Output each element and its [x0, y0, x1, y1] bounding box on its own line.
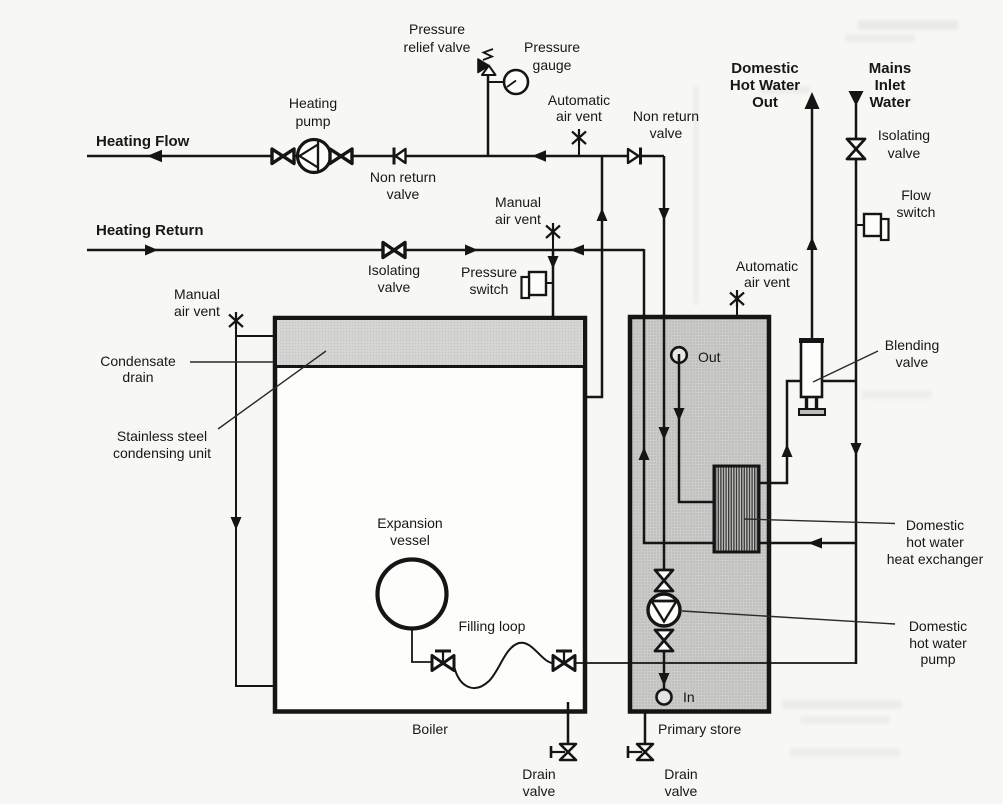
pointer line to DHW pump	[682, 611, 895, 624]
svg-text:Heating: Heating	[289, 95, 337, 111]
isolating valve on heating return	[383, 243, 405, 258]
svg-text:In: In	[683, 689, 695, 705]
svg-text:valve: valve	[523, 783, 556, 799]
boiler drain valve	[551, 744, 576, 760]
svg-text:relief valve: relief valve	[404, 39, 471, 55]
automatic air vent symbol on flow line	[572, 129, 586, 146]
arrow: down into boiler inlet	[548, 256, 559, 269]
wire: filling loop flexible hose	[454, 643, 552, 688]
boiler body	[275, 318, 585, 712]
wire: store return riser (return line down into store to heat exchanger)	[643, 249, 646, 544]
svg-text:Inlet: Inlet	[875, 77, 906, 94]
isolating valve right of pump	[330, 149, 352, 164]
svg-text:Non return: Non return	[633, 108, 699, 124]
manual air vent symbol above return	[546, 223, 560, 240]
svg-text:hot water: hot water	[909, 635, 967, 651]
svg-text:valve: valve	[896, 354, 929, 370]
svg-text:valve: valve	[387, 186, 420, 202]
pointer line to condensing unit	[218, 351, 326, 429]
svg-text:Condensate: Condensate	[100, 353, 176, 369]
wire: boiler return inlet drop	[552, 250, 555, 317]
svg-text:Drain: Drain	[522, 766, 555, 782]
svg-text:Domestic: Domestic	[909, 618, 967, 634]
pointer line to heat exchanger	[744, 519, 895, 524]
svg-text:Domestic: Domestic	[906, 517, 964, 533]
wire: condensate drain pointer line	[190, 361, 274, 363]
svg-text:air vent: air vent	[495, 211, 541, 227]
pointer line to blending valve	[813, 351, 878, 382]
filling loop valve left	[432, 651, 454, 671]
wire: manual air vent left drop pipe	[236, 326, 273, 686]
wire: pressure gauge link	[488, 81, 504, 83]
arrow: up to blending valve	[782, 444, 793, 457]
automatic air vent symbol on store	[730, 290, 744, 307]
domestic hot water pump body	[648, 594, 680, 626]
svg-text:Out: Out	[698, 349, 721, 365]
arrow: right on heating return mid	[465, 245, 478, 256]
blending valve body	[799, 340, 825, 415]
pressure gauge	[504, 70, 528, 94]
wire: domestic hot water out line	[811, 106, 814, 341]
filling loop valve right	[553, 651, 575, 671]
wire: pressure switch link	[546, 282, 554, 284]
wire: flow switch link	[856, 224, 864, 226]
svg-text:gauge: gauge	[533, 57, 572, 73]
svg-text:Isolating: Isolating	[368, 262, 420, 278]
wire: heat exchanger top outlet to blending valve	[759, 381, 801, 483]
svg-text:Manual: Manual	[174, 286, 220, 302]
svg-text:Filling loop: Filling loop	[459, 618, 526, 634]
manual air vent symbol left	[229, 312, 243, 329]
wire: automatic air vent stem	[578, 143, 580, 156]
wire: mains inlet water line	[855, 104, 858, 664]
wire: expansion vessel drop	[412, 628, 433, 662]
svg-text:air vent: air vent	[744, 274, 790, 290]
faint scan ghosts (background bleed-through)	[395, 20, 958, 757]
primary store tank body	[630, 317, 769, 712]
wire: heating return main pipe	[87, 249, 644, 252]
arrow: small up on DHW out line	[807, 237, 818, 250]
svg-text:Mains: Mains	[869, 60, 912, 77]
svg-text:air vent: air vent	[174, 303, 220, 319]
arrow: mains inlet big down	[849, 91, 864, 106]
arrow: left on return extension	[570, 245, 584, 256]
wire: heat exchanger bottom connection	[643, 542, 856, 545]
svg-text:Hot Water: Hot Water	[730, 77, 800, 94]
non return valve top right	[628, 148, 641, 165]
svg-text:air vent: air vent	[556, 108, 602, 124]
arrow: right on heating return left	[145, 245, 158, 256]
pressure relief valve	[478, 49, 496, 75]
svg-text:Manual: Manual	[495, 194, 541, 210]
svg-text:Water: Water	[869, 94, 910, 111]
wire: filling loop line to mains	[574, 662, 856, 664]
wire: store Out port drop to heat exchanger	[679, 354, 714, 502]
arrow: up on store return riser	[639, 447, 650, 460]
isolating valve left of pump	[272, 149, 294, 164]
svg-text:Drain: Drain	[664, 766, 697, 782]
svg-text:Automatic: Automatic	[548, 92, 610, 108]
svg-text:valve: valve	[378, 279, 411, 295]
arrow: down on mains line	[851, 443, 862, 456]
arrow: heating flow left end	[147, 150, 162, 162]
arrow: up on boiler flow riser	[597, 208, 608, 221]
svg-text:Non return: Non return	[370, 169, 436, 185]
svg-text:Domestic: Domestic	[731, 60, 799, 77]
wire: manual air vent stem above return	[552, 224, 554, 250]
non return valve on heating flow	[394, 148, 406, 165]
svg-text:valve: valve	[888, 145, 921, 161]
wire: flow line corner down to store pump	[663, 156, 666, 572]
svg-text:Heating Flow: Heating Flow	[96, 133, 190, 150]
svg-text:pump: pump	[920, 651, 955, 667]
arrow: down on left vent pipe	[231, 517, 242, 530]
svg-text:hot water: hot water	[906, 534, 964, 550]
svg-text:Blending: Blending	[885, 337, 940, 353]
svg-text:Flow: Flow	[901, 187, 931, 203]
svg-text:heat exchanger: heat exchanger	[887, 551, 984, 567]
svg-text:Pressure: Pressure	[409, 21, 465, 37]
svg-text:Pressure: Pressure	[461, 264, 517, 280]
arrow: heating flow mid pointing left	[532, 150, 546, 162]
arrow: down on store feed inside store	[659, 427, 670, 440]
svg-text:Automatic: Automatic	[736, 258, 798, 274]
wire: boiler drain stub	[567, 702, 570, 744]
store drain valve	[628, 744, 653, 760]
svg-text:switch: switch	[470, 281, 509, 297]
svg-text:Isolating: Isolating	[878, 127, 930, 143]
svg-text:Primary store: Primary store	[658, 721, 741, 737]
arrow: left on heat exchanger bottom connection	[808, 538, 822, 549]
wire: manual air vent link to boiler	[236, 335, 274, 337]
heat exchanger (domestic hot water heat exchanger)	[714, 466, 759, 552]
store pump isolating valve lower	[655, 630, 673, 651]
condensing unit band bottom edge	[275, 365, 585, 368]
svg-text:Pressure: Pressure	[524, 39, 580, 55]
svg-text:Boiler: Boiler	[412, 721, 448, 737]
svg-text:Expansion: Expansion	[377, 515, 442, 531]
svg-text:switch: switch	[897, 204, 936, 220]
store Out port circle	[671, 347, 687, 363]
heating pump body	[298, 140, 331, 173]
arrow: down on store feed pipe	[659, 208, 670, 221]
svg-text:condensing unit: condensing unit	[113, 445, 211, 461]
wire: store pump lower pipe to In port	[663, 650, 666, 689]
store In port circle	[657, 690, 672, 705]
svg-text:vessel: vessel	[390, 532, 430, 548]
flow switch	[864, 214, 889, 240]
arrow: down to In port	[659, 673, 670, 686]
mains isolating valve	[847, 139, 865, 159]
pressure switch	[522, 272, 547, 298]
wire: pressure relief valve drop pipe	[487, 74, 490, 156]
wire: boiler flow riser (boiler to heating flow line)	[584, 156, 602, 397]
svg-text:Out: Out	[752, 94, 778, 111]
svg-text:valve: valve	[650, 125, 683, 141]
arrow: domestic hot water out big	[805, 92, 820, 109]
wire: blending valve to mains line tee	[822, 380, 857, 383]
svg-text:drain: drain	[122, 369, 153, 385]
arrow: down from Out port	[674, 408, 685, 421]
stainless steel condensing unit band	[277, 320, 583, 365]
expansion vessel	[378, 560, 447, 629]
svg-text:Heating Return: Heating Return	[96, 222, 204, 239]
svg-text:valve: valve	[665, 783, 698, 799]
wire: heating flow main pipe	[87, 155, 664, 158]
svg-text:Stainless steel: Stainless steel	[117, 428, 207, 444]
store pump isolating valve upper	[655, 570, 673, 591]
svg-text:pump: pump	[295, 113, 330, 129]
wire: store drain stub	[644, 712, 647, 744]
wire: automatic air vent stem on store	[736, 304, 738, 317]
